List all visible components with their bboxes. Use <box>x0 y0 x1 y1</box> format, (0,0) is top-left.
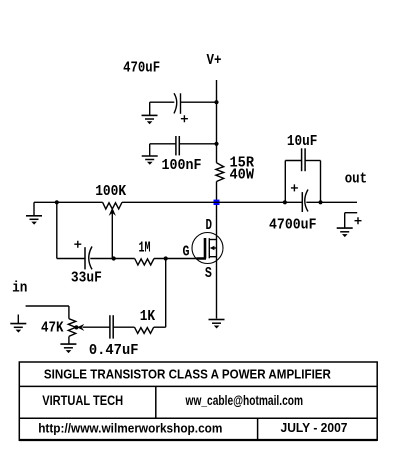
capacitor 4700uF straight plate <box>301 192 303 212</box>
junction dot main row / 33uF branch <box>55 200 59 204</box>
capacitor 10uF plates <box>301 148 303 171</box>
transistor Q1 gate bar <box>196 238 206 259</box>
transistor Q1 drain stub <box>209 239 216 241</box>
ground for C1 <box>142 102 158 124</box>
capacitor 4700uF curved plate <box>305 190 308 212</box>
svg-text:470uF: 470uF <box>123 61 160 77</box>
svg-text:47K: 47K <box>41 320 64 336</box>
potentiometer 100K wiper arrow <box>109 208 116 259</box>
ground for Q1 source <box>209 320 225 329</box>
svg-text:ww_cable@hotmail.com: ww_cable@hotmail.com <box>185 393 303 408</box>
wire 100nF branch right segment <box>179 143 216 145</box>
capacitor 4700uF plus sign <box>291 184 298 191</box>
wire 0.47uF to 1K <box>113 326 134 328</box>
svg-text:0.47uF: 0.47uF <box>89 343 139 359</box>
title block table <box>19 362 377 440</box>
svg-text:100K: 100K <box>95 184 126 200</box>
junction blue square node (drain/output) <box>214 200 220 205</box>
potentiometer 47K zigzag <box>68 319 75 337</box>
wire input down to pot <box>68 306 70 319</box>
wire 33uF branch vertical <box>56 202 58 258</box>
transistor Q1 body arrow <box>210 246 217 251</box>
svg-text:V+: V+ <box>207 53 222 69</box>
capacitor 33uF straight plate <box>84 247 86 269</box>
svg-text:G: G <box>183 244 190 260</box>
capacitor 0.47uF plates <box>109 315 111 338</box>
svg-text:40W: 40W <box>230 168 255 184</box>
svg-text:VIRTUAL TECH: VIRTUAL TECH <box>42 393 123 408</box>
resistor 15R 40W zigzag <box>216 163 224 182</box>
title block vertical divider row3 <box>257 418 259 440</box>
wire 33uF branch horizontal left <box>57 258 85 260</box>
wire 10uF bridge left segment <box>285 160 301 162</box>
wire 470uF branch right segment <box>181 101 217 103</box>
capacitor C2 100nF plates <box>175 136 177 155</box>
ground for C2 <box>142 144 158 165</box>
wire input horizontal <box>26 305 69 307</box>
potentiometer 47K wiper arrow and junction dot <box>74 324 110 331</box>
svg-text:1K: 1K <box>140 309 156 325</box>
capacitor C1 470uF straight plate <box>180 93 182 114</box>
svg-text:10uF: 10uF <box>287 134 318 150</box>
svg-text:100nF: 100nF <box>162 158 202 174</box>
title block divider row1/row2 <box>19 385 377 387</box>
junction dot bypass left <box>283 200 287 204</box>
wire 10uF bypass right vertical <box>320 161 322 203</box>
wire 1M to gate <box>154 258 196 260</box>
wire 1K to vertical riser <box>154 326 166 328</box>
svg-text:out: out <box>345 172 367 188</box>
potentiometer 100K zigzag <box>103 202 122 209</box>
wire 47K bottom to ground <box>68 336 70 344</box>
svg-text:4700uF: 4700uF <box>269 217 317 233</box>
resistor 1M zigzag <box>135 259 154 266</box>
capacitor C1 470uF curved plate <box>174 93 177 113</box>
transistor Q1 source stub <box>209 256 216 258</box>
ground input jack <box>10 315 26 333</box>
wire 470uF branch left segment <box>150 101 175 103</box>
transistor Q1 circle <box>192 233 223 264</box>
svg-text:in: in <box>12 280 27 296</box>
capacitor C1 470uF plus sign <box>181 115 188 122</box>
svg-text:S: S <box>205 266 212 282</box>
wire 33uF to 1M <box>90 258 134 260</box>
wire 10uF bypass left vertical <box>284 161 286 203</box>
capacitor 33uF curved plate <box>89 247 92 270</box>
title block outer border <box>19 362 377 440</box>
output ground terminal with plus <box>337 213 362 237</box>
svg-text:JULY - 2007: JULY - 2007 <box>281 420 348 435</box>
ground for 47K <box>60 344 76 353</box>
junction dot gate/1K column <box>164 256 168 260</box>
svg-text:1M: 1M <box>139 240 151 256</box>
resistor 1K zigzag <box>135 327 154 333</box>
wire 100nF branch left segment <box>150 143 176 145</box>
wire riser to gate row <box>165 259 167 328</box>
title block divider row2/row3 <box>19 417 377 419</box>
wire V+ rail vertical <box>216 80 218 163</box>
svg-text:SINGLE TRANSISTOR CLASS A POWE: SINGLE TRANSISTOR CLASS A POWER AMPLIFIE… <box>44 367 332 382</box>
svg-text:D: D <box>206 218 213 234</box>
wire 10uF bridge right segment <box>305 160 320 162</box>
junction dot rail/470uF <box>214 100 218 104</box>
wire main output row right segment <box>306 201 357 203</box>
wire main output row middle segment <box>122 201 302 203</box>
svg-text:33uF: 33uF <box>71 270 102 286</box>
svg-text:http://www.wilmerworkshop.com: http://www.wilmerworkshop.com <box>38 420 222 435</box>
junction dot rail/100nF <box>214 142 218 146</box>
capacitor 33uF plus sign <box>74 241 81 248</box>
wire main output row left segment <box>34 201 103 203</box>
junction dot bypass right <box>318 200 322 204</box>
transistor Q1 channel bar <box>208 238 210 258</box>
ground left of main row <box>26 202 42 224</box>
junction dot wiper/signal row <box>112 256 116 260</box>
wire drain-source vertical through Q1 <box>216 182 218 319</box>
title block vertical divider row2 <box>155 386 157 418</box>
